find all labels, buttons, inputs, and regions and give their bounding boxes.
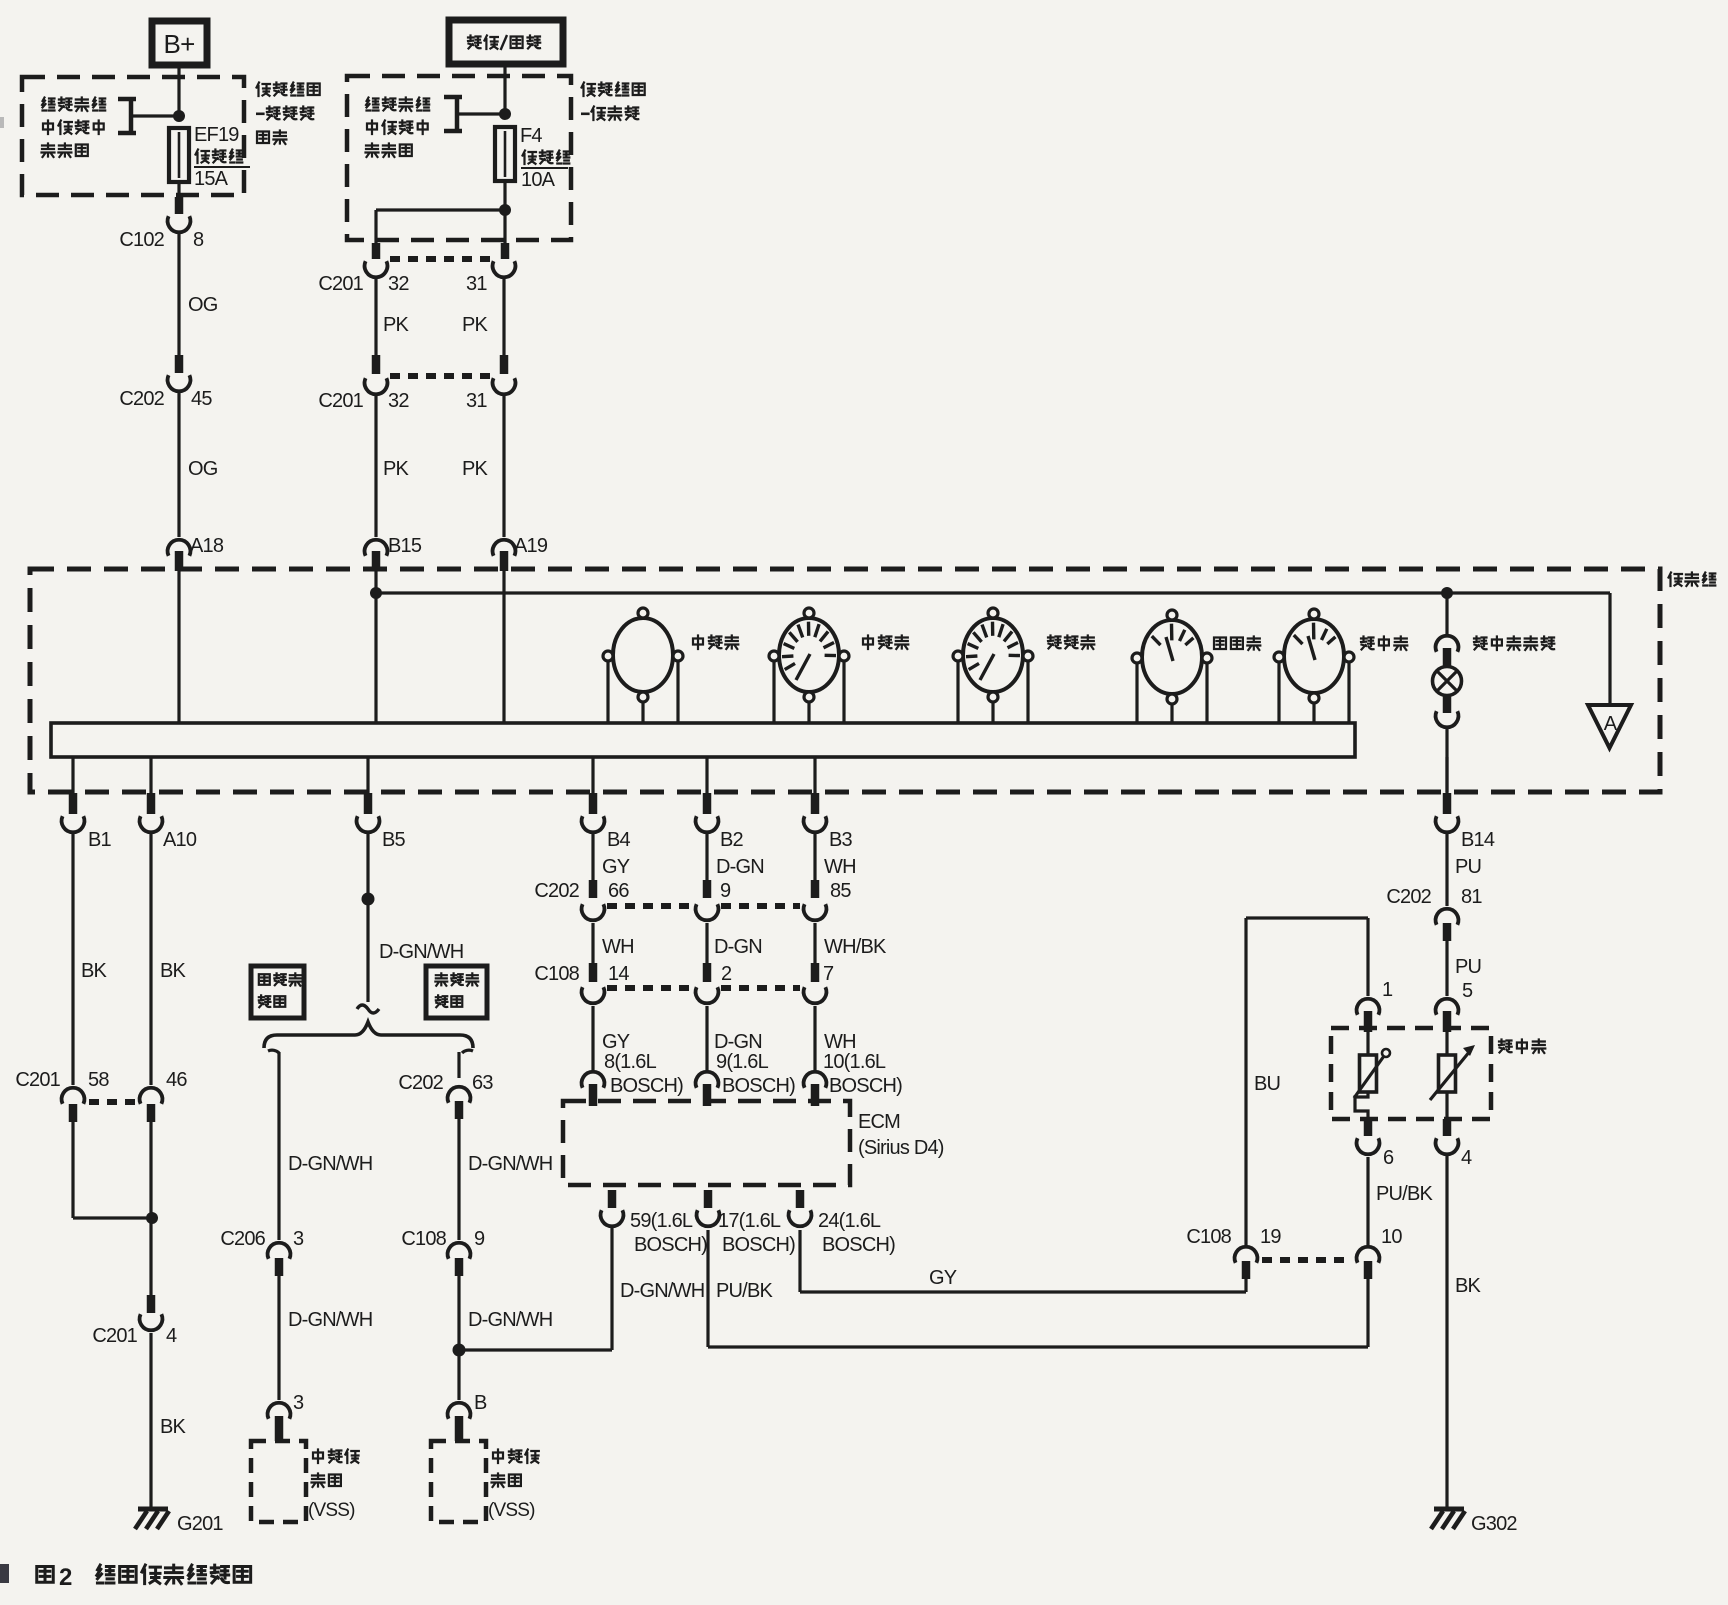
fuse EF19 15A [169, 124, 250, 190]
svg-text:C201: C201 [318, 273, 363, 295]
svg-text:BK: BK [160, 960, 187, 982]
wires WH / D-GN / WH-BK [593, 923, 887, 982]
connector C202 pin 63 [398, 1072, 493, 1119]
svg-text:A19: A19 [514, 535, 548, 557]
wire BK from pump 4 to ground G302 [1447, 1156, 1482, 1509]
svg-text:C201: C201 [15, 1069, 60, 1091]
svg-text:(VSS): (VSS) [308, 1500, 355, 1521]
ground G201 [135, 1509, 223, 1535]
fuel level sender (variable resistor) [1354, 1032, 1390, 1119]
power distribution tap symbol (IP box) [444, 97, 511, 131]
svg-text:A: A [1604, 713, 1618, 735]
svg-text:BOSCH): BOSCH) [822, 1234, 895, 1256]
svg-text:45: 45 [191, 388, 212, 410]
ECM terminals 8/9/10 (1.6L BOSCH) [582, 1051, 903, 1106]
cluster terminal B1 [62, 757, 112, 851]
svg-text:B+: B+ [164, 29, 195, 59]
cluster internal feed wires from A18/B15/A19 [179, 571, 504, 723]
svg-text:PU/BK: PU/BK [1376, 1183, 1433, 1205]
wire PU/BK from ECM 17 to C108-10 [708, 1230, 1368, 1347]
svg-text:BK: BK [1455, 1275, 1482, 1297]
svg-text:WH/BK: WH/BK [824, 936, 887, 958]
svg-text:9: 9 [474, 1228, 485, 1250]
vehicle speed sensor box (manual) 车速传感器(VSS) [431, 1441, 539, 1522]
svg-text:C206: C206 [220, 1228, 265, 1250]
wire WH from B3 [815, 834, 856, 898]
wire GY from B4 [593, 834, 630, 898]
svg-text:BK: BK [160, 1416, 187, 1438]
svg-text:4: 4 [166, 1325, 177, 1347]
svg-text:C202: C202 [398, 1072, 443, 1094]
svg-text:GY: GY [602, 856, 630, 878]
svg-text:9(1.6L: 9(1.6L [716, 1051, 769, 1073]
VSS terminal B [448, 1392, 487, 1441]
svg-text:BOSCH): BOSCH) [722, 1075, 795, 1097]
fuel pump terminal 5 [1436, 980, 1473, 1032]
svg-text:14: 14 [608, 963, 629, 985]
svg-text:3: 3 [293, 1392, 304, 1414]
svg-text:24(1.6L: 24(1.6L [818, 1210, 881, 1232]
svg-text:8(1.6L: 8(1.6L [604, 1051, 657, 1073]
wire PU from B14 [1447, 834, 1481, 906]
wire D-GN from B2 [707, 834, 764, 898]
svg-text:9: 9 [720, 880, 731, 902]
svg-text:31: 31 [466, 273, 487, 295]
gauge: tachometer 转速表 [953, 608, 1094, 723]
svg-text:59(1.6L: 59(1.6L [630, 1210, 693, 1232]
svg-text:D-GN: D-GN [716, 856, 764, 878]
svg-text:PU: PU [1455, 856, 1481, 878]
gauge: speedometer 车速表 [769, 608, 908, 723]
automatic branch wire D-GN/WH [268, 1050, 372, 1240]
wire BK to ground G201 [151, 1333, 187, 1509]
wire from C201-46 down [149, 1122, 152, 1313]
svg-text:BOSCH): BOSCH) [829, 1075, 902, 1097]
svg-text:D-GN: D-GN [714, 1031, 762, 1053]
wire D-GN/WH from ECM 59 to VSS tap [612, 1228, 704, 1350]
svg-text:WH: WH [824, 1031, 856, 1053]
svg-text:A10: A10 [163, 829, 197, 851]
svg-text:PU: PU [1455, 956, 1481, 978]
wire D-GN/WH from B5 [357, 834, 463, 1013]
svg-text:GY: GY [602, 1031, 630, 1053]
cluster terminal B2 [696, 757, 744, 851]
svg-text:D-GN/WH: D-GN/WH [468, 1309, 552, 1331]
svg-text:8: 8 [193, 229, 204, 251]
wire PK pair (upper) [376, 279, 504, 374]
svg-text:C202: C202 [119, 388, 164, 410]
connector C201 pins 58/46 [15, 1069, 187, 1122]
svg-text:PK: PK [462, 314, 489, 336]
svg-text:G201: G201 [177, 1513, 223, 1535]
branch wire to C201-32 [376, 204, 511, 243]
connector C102 pin 8 [119, 216, 204, 251]
svg-text:66: 66 [608, 880, 629, 902]
svg-text:B3: B3 [829, 829, 853, 851]
power distribution tap symbol (B+ box) [118, 99, 185, 133]
gauge: fuel 燃油表 [1274, 609, 1407, 723]
wire PU to fuel pump 5 [1447, 941, 1481, 996]
connector C108 pins 14/2/7 [534, 963, 834, 1003]
wire D-GN/WH (C202-63 to C108-9) [459, 1119, 552, 1240]
svg-text:D-GN/WH: D-GN/WH [620, 1280, 704, 1302]
wire F4 to branch junction [503, 181, 506, 243]
manual branch wire [459, 1050, 473, 1078]
vehicle speed sensor box (auto) 车速传感器(VSS) [251, 1441, 359, 1522]
fuel warning lamp 燃油警告灯 [1433, 593, 1555, 792]
svg-text:D-GN/WH: D-GN/WH [468, 1153, 552, 1175]
wire fuse EF19 to connector C102 [177, 182, 180, 214]
svg-text:F4: F4 [520, 125, 542, 147]
page margin artifact [0, 117, 9, 1583]
wire B+ to engine fuse box [177, 65, 180, 116]
wire BU loop to fuel pump 1 [1246, 918, 1368, 1245]
svg-text:C201: C201 [92, 1325, 137, 1347]
fuel pump terminal 1 [1357, 979, 1393, 1032]
wire from C201-58 joining A10 branch [73, 1122, 158, 1224]
svg-text:BOSCH): BOSCH) [610, 1075, 683, 1097]
bus bar [51, 723, 1355, 757]
wire D-GN/WH to VSS (manual) with tap to ECM 59 [453, 1276, 613, 1400]
svg-text:GY: GY [929, 1267, 957, 1289]
svg-text:BU: BU [1254, 1073, 1280, 1095]
cluster terminal B4 [582, 757, 631, 851]
fuel pump terminal 6 [1357, 1119, 1394, 1169]
svg-text:B4: B4 [607, 829, 631, 851]
svg-text:7: 7 [823, 963, 834, 985]
svg-text:(VSS): (VSS) [488, 1500, 535, 1521]
gauge: temperature 温度表 [1132, 610, 1260, 723]
selection brace [264, 1022, 473, 1048]
connector C108 pins 19/10 [1186, 1226, 1402, 1279]
svg-text:C102: C102 [119, 229, 164, 251]
connector C201 pins 32/31 (lower) [318, 376, 515, 412]
svg-text:A18: A18 [190, 535, 224, 557]
svg-text:10: 10 [1381, 1226, 1402, 1248]
automatic transmission label box 自动变速器 [251, 966, 304, 1018]
fuel pump terminal 4 [1436, 1119, 1472, 1169]
wire PU/BK from pump 6 to C108-10 [1368, 1157, 1433, 1245]
wire stubs through box edge [376, 243, 505, 259]
svg-text:C201: C201 [318, 390, 363, 412]
svg-text:(Sirius D4): (Sirius D4) [858, 1137, 944, 1159]
power node 运行/启动 (Run/Start) [449, 20, 563, 64]
svg-text:B14: B14 [1461, 829, 1495, 851]
svg-text:PK: PK [383, 314, 410, 336]
svg-text:BOSCH): BOSCH) [722, 1234, 795, 1256]
svg-text:PK: PK [462, 458, 489, 480]
cluster terminal B5 [357, 757, 406, 851]
svg-text:31: 31 [466, 390, 487, 412]
svg-text:B2: B2 [720, 829, 744, 851]
svg-text:C108: C108 [534, 963, 579, 985]
svg-text:15A: 15A [194, 168, 229, 190]
svg-text:81: 81 [1461, 886, 1482, 908]
connector C202 pins 66/9/85 [534, 880, 851, 920]
svg-text:2: 2 [721, 963, 732, 985]
cluster terminal A18 [168, 535, 224, 571]
connector C108 pin 9 [401, 1228, 485, 1276]
svg-text:OG: OG [188, 294, 218, 316]
manual transmission label box 手动变速器 [426, 966, 487, 1018]
wire OG (C102-8 to C202-45) [179, 234, 218, 373]
instrument cluster box (仪表组) [30, 569, 1715, 792]
svg-text:C108: C108 [1186, 1226, 1231, 1248]
connector C202 pin 81 [1386, 886, 1482, 941]
svg-text:1: 1 [1382, 979, 1393, 1001]
svg-text:BOSCH): BOSCH) [634, 1234, 707, 1256]
svg-text:C108: C108 [401, 1228, 446, 1250]
svg-text:63: 63 [472, 1072, 493, 1094]
wires GY / D-GN / WH to ECM [593, 1006, 856, 1070]
svg-text:85: 85 [830, 880, 851, 902]
svg-text:D-GN: D-GN [714, 936, 762, 958]
fuse box - under hood (保险丝盒-发动机罩下) [22, 77, 320, 195]
fuel pump motor (variable resistor w/ arrow) [1430, 1032, 1475, 1119]
svg-text:C202: C202 [1386, 886, 1431, 908]
svg-text:WH: WH [824, 856, 856, 878]
svg-text:B15: B15 [388, 535, 422, 557]
svg-text:3: 3 [293, 1228, 304, 1250]
svg-text:BK: BK [81, 960, 108, 982]
connector C202 pin 45 [119, 375, 212, 410]
gauge: odometer 里程表 [603, 608, 738, 723]
svg-text:C202: C202 [534, 880, 579, 902]
connector C201 pin 4 [92, 1314, 177, 1347]
svg-text:B1: B1 [88, 829, 112, 851]
cluster terminal B3 [804, 757, 853, 851]
wire BK from A10 [151, 834, 187, 1085]
svg-text:6: 6 [1383, 1147, 1394, 1169]
wire GY from ECM 24 to C108-19 [800, 1230, 1246, 1292]
cluster terminal B15 [365, 535, 422, 571]
wire PK pair (lower) [376, 396, 504, 537]
svg-text:EF19: EF19 [194, 124, 239, 146]
VSS terminal 3 [268, 1392, 304, 1441]
svg-text:D-GN/WH: D-GN/WH [379, 941, 463, 963]
fuse F4 10A [495, 125, 569, 191]
wire OG (C202-45 to cluster A18) [179, 393, 218, 537]
cluster terminal B14 [1436, 757, 1495, 851]
svg-text:32: 32 [388, 273, 409, 295]
svg-text:10A: 10A [521, 169, 556, 191]
svg-text:D-GN/WH: D-GN/WH [288, 1153, 372, 1175]
svg-text:17(1.6L: 17(1.6L [718, 1210, 781, 1232]
cluster terminal A10 [140, 757, 197, 851]
svg-text:32: 32 [388, 390, 409, 412]
ECM (Sirius D4) box [563, 1101, 944, 1185]
ground G302 [1431, 1509, 1517, 1535]
svg-text:46: 46 [166, 1069, 187, 1091]
svg-text:19: 19 [1260, 1226, 1281, 1248]
svg-text:58: 58 [88, 1069, 109, 1091]
svg-text:5: 5 [1462, 980, 1473, 1002]
connector C206 pin 3 [220, 1228, 304, 1276]
svg-text:2: 2 [59, 1564, 72, 1591]
power node B+ [152, 21, 207, 65]
svg-text:ECM: ECM [858, 1111, 900, 1133]
svg-text:D-GN/WH: D-GN/WH [288, 1309, 372, 1331]
svg-text:10(1.6L: 10(1.6L [823, 1051, 886, 1073]
ECM terminals 59/17/24 (1.6L BOSCH) [601, 1190, 896, 1256]
wire Run/Start to IP fuse box [503, 64, 506, 114]
svg-text:WH: WH [602, 936, 634, 958]
cluster terminal A19 [493, 535, 548, 571]
wire BK from B1 [73, 834, 108, 1085]
svg-text:B5: B5 [382, 829, 406, 851]
svg-text:G302: G302 [1471, 1513, 1517, 1535]
wire D-GN/WH to VSS (auto) [279, 1276, 372, 1400]
svg-text:B: B [474, 1392, 487, 1414]
svg-text:OG: OG [188, 458, 218, 480]
svg-text:PU/BK: PU/BK [716, 1280, 773, 1302]
cluster internal bus wire to lamp and gauge A [370, 587, 1610, 705]
connector C201 pins 32/31 (upper) [318, 259, 515, 295]
gauge feed triangle A [1588, 705, 1631, 748]
svg-text:4: 4 [1461, 1147, 1472, 1169]
fuse box - instrument panel (保险丝盒-仪表板) [347, 76, 645, 240]
svg-text:PK: PK [383, 458, 410, 480]
caption 图2 组合仪表线路图 [37, 1564, 251, 1591]
fuel pump box 燃油泵 [1331, 1028, 1545, 1119]
